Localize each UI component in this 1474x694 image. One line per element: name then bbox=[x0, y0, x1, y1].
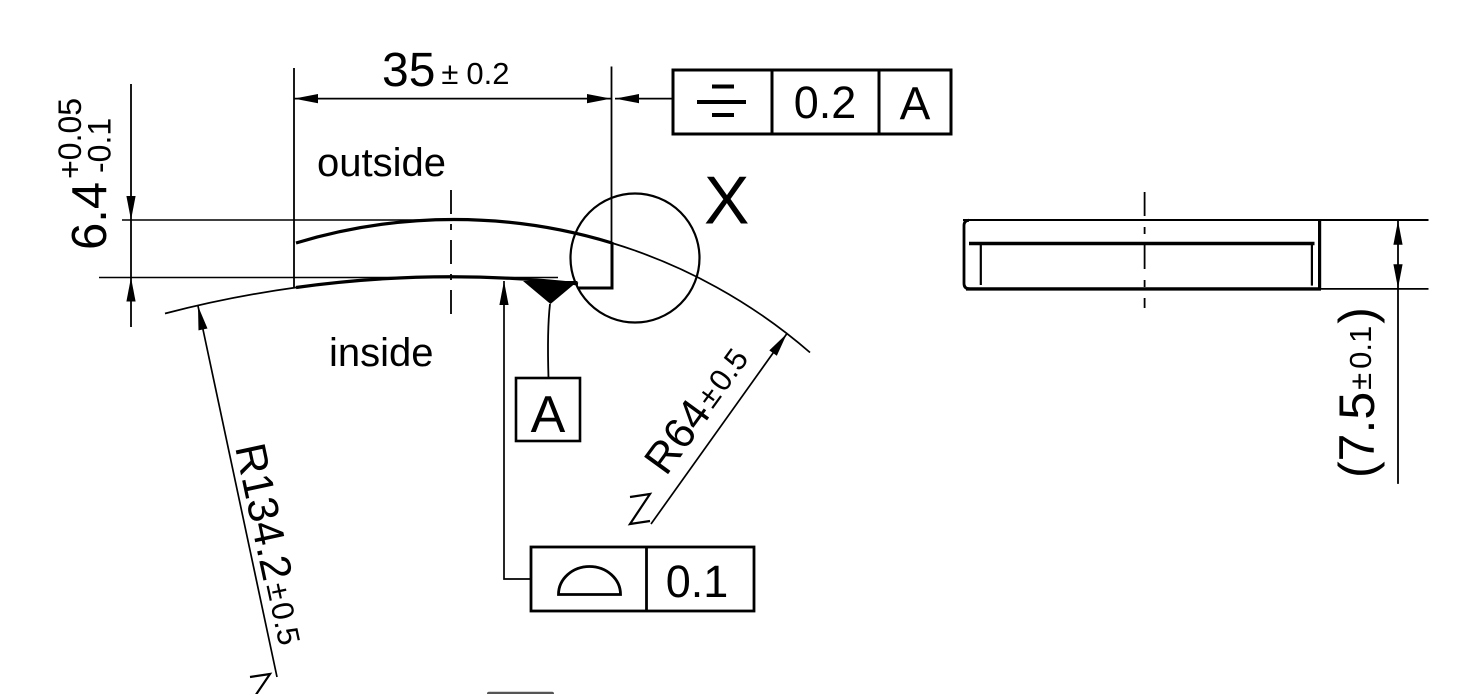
cropped gray bar at bottom edge bbox=[487, 692, 554, 694]
FCF leader line bbox=[615, 98, 673, 100]
svg-text:A: A bbox=[531, 386, 566, 444]
R134.2 dimension line bbox=[198, 306, 277, 677]
svg-text:R64±0.5: R64±0.5 bbox=[635, 337, 759, 483]
datum triangle (filled) bbox=[523, 281, 578, 304]
side view right end vertical bbox=[1318, 220, 1321, 289]
R64 zigzag bbox=[630, 494, 650, 524]
side view bottom thick line bbox=[966, 287, 1321, 290]
profile leader line bbox=[504, 281, 531, 579]
profile-of-surface symbol bbox=[559, 567, 621, 595]
profile leader arrow bbox=[499, 281, 508, 305]
6.4 bottom extension line bbox=[99, 277, 558, 279]
datum A box bbox=[516, 378, 580, 441]
feature control frame 0.2 A bbox=[673, 70, 951, 134]
inside arc (thick, within 35 span) bbox=[296, 277, 578, 288]
profile feature control frame 0.1 bbox=[531, 547, 754, 611]
R64 arrow bbox=[769, 331, 790, 356]
side view middle thick line bbox=[969, 242, 1315, 245]
6.4 dimension line bbox=[130, 84, 132, 327]
datum leader bbox=[548, 304, 550, 378]
centerline main view bbox=[450, 190, 452, 322]
35 dimension line bbox=[294, 98, 611, 100]
side view top line with extension bbox=[963, 219, 1429, 221]
inside arc thin left extension (R134.2 surface) bbox=[165, 288, 296, 314]
6.4 arrow up bbox=[126, 278, 135, 302]
svg-text:R134.2±0.5: R134.2±0.5 bbox=[225, 439, 315, 649]
svg-text:6.4+0.05-0.1: 6.4+0.05-0.1 bbox=[52, 98, 118, 250]
svg-text:0.1: 0.1 bbox=[666, 556, 729, 607]
side view inner right vertical bbox=[1311, 245, 1313, 286]
7.5 arrow down bbox=[1393, 264, 1402, 288]
35 arrow left bbox=[294, 94, 318, 103]
side view left end bbox=[964, 220, 970, 288]
FCF leader arrow bbox=[615, 94, 639, 103]
strip right end face bbox=[578, 242, 612, 288]
svg-text:(7.5±0.1): (7.5±0.1) bbox=[1329, 307, 1385, 478]
side view inner left vertical bbox=[980, 245, 982, 285]
7.5 dimension line bbox=[1397, 220, 1399, 484]
side view centerline bbox=[1144, 192, 1146, 308]
R64 dimension line bbox=[651, 334, 787, 525]
svg-text:outside: outside bbox=[317, 141, 446, 185]
35 arrow right bbox=[587, 94, 611, 103]
7.5 arrow up bbox=[1393, 221, 1402, 245]
svg-text:35±0.2: 35±0.2 bbox=[382, 44, 510, 97]
outside arc thin continuation (R64 surface) bbox=[612, 243, 810, 353]
6.4 top extension line bbox=[122, 219, 457, 221]
outside arc (thick, within 35 span) bbox=[296, 220, 612, 243]
6.4 arrow down bbox=[126, 196, 135, 220]
svg-text:0.2: 0.2 bbox=[794, 77, 857, 128]
detail circle X bbox=[571, 194, 700, 323]
35 right extension line bbox=[611, 67, 613, 243]
svg-text:inside: inside bbox=[329, 331, 434, 375]
35 left extension line bbox=[293, 68, 295, 288]
side view bottom extension line bbox=[1321, 288, 1429, 290]
R134.2 zigzag bbox=[250, 674, 271, 694]
svg-text:A: A bbox=[900, 78, 931, 130]
svg-text:X: X bbox=[704, 163, 749, 239]
three-line symbol bbox=[697, 87, 746, 116]
R134.2 arrow bbox=[194, 305, 208, 330]
